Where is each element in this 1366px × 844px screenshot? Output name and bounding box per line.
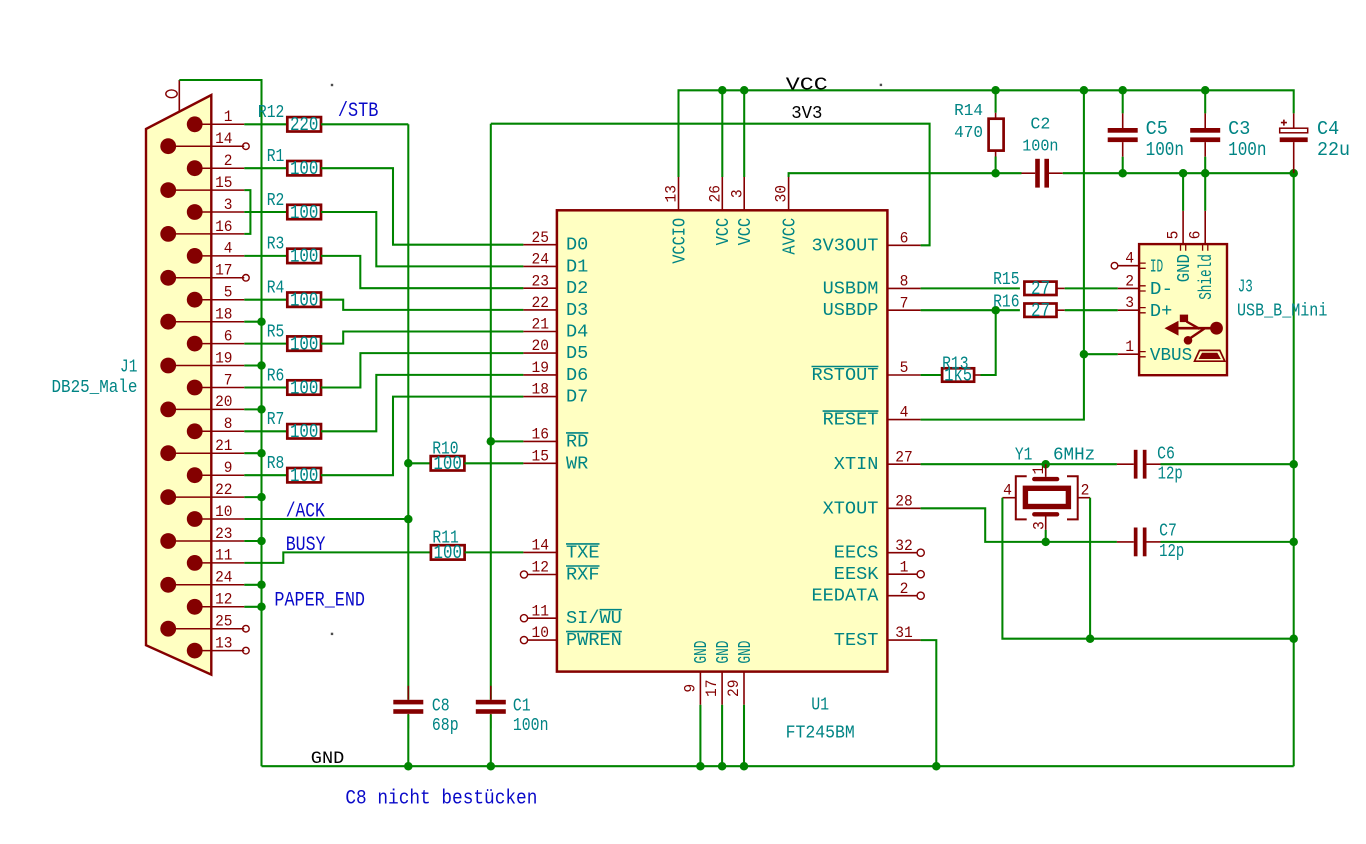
svg-text:100n: 100n — [1022, 137, 1058, 156]
svg-text:1: 1 — [900, 558, 909, 576]
svg-text:2: 2 — [1081, 482, 1090, 500]
svg-text:4: 4 — [1003, 482, 1012, 500]
svg-text:10: 10 — [215, 503, 232, 521]
svg-text:1: 1 — [1125, 338, 1134, 356]
svg-text:R13: R13 — [942, 355, 968, 375]
svg-text:2: 2 — [224, 152, 233, 170]
svg-text:30: 30 — [773, 185, 791, 203]
svg-text:RD: RD — [566, 431, 588, 452]
svg-text:D1: D1 — [566, 256, 588, 277]
svg-text:VCC: VCC — [713, 218, 734, 246]
svg-text:USB_B_Mini: USB_B_Mini — [1237, 302, 1327, 322]
svg-text:21: 21 — [215, 437, 232, 455]
svg-text:22: 22 — [215, 481, 232, 499]
svg-text:D2: D2 — [566, 278, 588, 299]
svg-text:FT245BM: FT245BM — [786, 724, 855, 744]
svg-text:GND: GND — [311, 749, 345, 769]
svg-text:3: 3 — [1125, 294, 1134, 312]
svg-text:11: 11 — [215, 547, 232, 565]
svg-text:R3: R3 — [267, 235, 285, 255]
svg-text:C8: C8 — [432, 696, 450, 716]
svg-text:12: 12 — [531, 559, 549, 577]
svg-text:R4: R4 — [267, 279, 285, 299]
svg-text:R1: R1 — [267, 147, 285, 167]
svg-text:100: 100 — [290, 421, 319, 443]
svg-text:R11: R11 — [432, 528, 458, 548]
svg-text:32: 32 — [895, 537, 913, 555]
svg-text:D5: D5 — [566, 343, 588, 364]
svg-text:22: 22 — [531, 294, 549, 312]
svg-text:VCCIO: VCCIO — [669, 218, 690, 264]
svg-text:TEST: TEST — [834, 630, 879, 651]
svg-text:3V3OUT: 3V3OUT — [812, 235, 879, 256]
svg-text:100: 100 — [290, 465, 319, 487]
svg-text:14: 14 — [215, 130, 232, 148]
svg-text:R14: R14 — [954, 101, 983, 120]
svg-text:U1: U1 — [811, 696, 829, 716]
svg-text:USBDP: USBDP — [823, 300, 879, 321]
svg-text:19: 19 — [215, 349, 232, 367]
svg-text:1: 1 — [224, 108, 233, 126]
svg-text:C5: C5 — [1146, 118, 1168, 140]
svg-text:C7: C7 — [1159, 522, 1177, 542]
svg-text:C3: C3 — [1228, 118, 1250, 140]
svg-text:6: 6 — [900, 229, 909, 247]
svg-text:27: 27 — [895, 448, 913, 466]
svg-text:21: 21 — [531, 316, 549, 334]
svg-text:R5: R5 — [267, 322, 285, 342]
svg-text:C8 nicht bestücken: C8 nicht bestücken — [345, 787, 537, 810]
svg-text:17: 17 — [215, 262, 232, 280]
svg-text:10: 10 — [531, 624, 549, 642]
svg-text:29: 29 — [725, 679, 743, 697]
svg-text:12p: 12p — [1158, 465, 1183, 485]
svg-text:18: 18 — [531, 381, 549, 399]
svg-text:1: 1 — [1030, 466, 1048, 475]
svg-text:68p: 68p — [432, 716, 459, 736]
svg-text:XTOUT: XTOUT — [823, 498, 879, 519]
svg-text:C6: C6 — [1157, 445, 1175, 465]
svg-text:20: 20 — [531, 337, 549, 355]
svg-text:100: 100 — [290, 246, 319, 268]
svg-text:3: 3 — [728, 189, 746, 198]
svg-text:13: 13 — [215, 634, 232, 652]
svg-text:22u: 22u — [1317, 139, 1350, 161]
svg-text:11: 11 — [531, 602, 549, 620]
svg-text:100n: 100n — [1146, 139, 1184, 161]
svg-text:16: 16 — [215, 218, 232, 236]
svg-text:100n: 100n — [1228, 139, 1266, 161]
svg-text:WR: WR — [566, 453, 588, 474]
svg-text:17: 17 — [703, 679, 721, 697]
svg-text:3: 3 — [1030, 521, 1048, 530]
svg-text:C1: C1 — [513, 696, 531, 716]
svg-text:R16: R16 — [993, 293, 1019, 313]
svg-text:9: 9 — [681, 684, 699, 693]
svg-text:J3: J3 — [1238, 278, 1253, 298]
svg-text:16: 16 — [531, 426, 549, 444]
svg-text:470: 470 — [954, 123, 983, 142]
svg-text:R2: R2 — [267, 191, 285, 211]
svg-text:EECS: EECS — [834, 543, 879, 564]
svg-text:28: 28 — [895, 492, 913, 510]
svg-text:27: 27 — [1031, 300, 1050, 322]
svg-text:220: 220 — [290, 114, 319, 136]
svg-text:D6: D6 — [566, 365, 588, 386]
svg-text:EESK: EESK — [834, 564, 879, 585]
svg-text:13: 13 — [663, 185, 681, 203]
svg-text:VBUS: VBUS — [1150, 345, 1192, 366]
svg-text:XTIN: XTIN — [834, 454, 879, 475]
svg-text:J1: J1 — [120, 357, 137, 377]
svg-text:R10: R10 — [432, 439, 458, 459]
svg-text:100: 100 — [290, 202, 319, 224]
svg-text:GND: GND — [691, 641, 712, 664]
svg-text:R12: R12 — [258, 103, 284, 123]
svg-text:/STB: /STB — [338, 100, 379, 123]
svg-text:31: 31 — [895, 624, 913, 642]
svg-text:VCC: VCC — [735, 218, 756, 246]
svg-text:4: 4 — [900, 404, 909, 422]
svg-text:8: 8 — [900, 273, 909, 291]
svg-text:12: 12 — [215, 591, 232, 609]
svg-text:C4: C4 — [1317, 118, 1339, 140]
svg-text:100: 100 — [290, 377, 319, 399]
svg-text:7: 7 — [224, 371, 233, 389]
svg-text:100: 100 — [290, 333, 319, 355]
svg-text:TXE: TXE — [566, 542, 600, 563]
svg-text:GND: GND — [1174, 254, 1195, 282]
svg-text:Y1: Y1 — [1015, 446, 1033, 466]
svg-text:5: 5 — [224, 284, 233, 302]
svg-text:6: 6 — [224, 327, 233, 345]
svg-text:27: 27 — [1031, 278, 1050, 300]
svg-text:RESET: RESET — [823, 410, 879, 431]
svg-text:BUSY: BUSY — [286, 534, 326, 557]
svg-text:RXF: RXF — [566, 565, 600, 586]
svg-text:RSTOUT: RSTOUT — [812, 365, 879, 386]
svg-text:2: 2 — [900, 580, 909, 598]
svg-text:7: 7 — [900, 294, 909, 312]
svg-text:5: 5 — [1165, 231, 1183, 240]
svg-text:R7: R7 — [267, 410, 285, 430]
svg-text:GND: GND — [735, 641, 756, 664]
svg-text:EEDATA: EEDATA — [812, 586, 880, 607]
svg-text:2: 2 — [1125, 272, 1134, 290]
svg-text:DB25_Male: DB25_Male — [52, 378, 138, 398]
svg-text:Shield: Shield — [1196, 254, 1217, 300]
svg-text:PWREN: PWREN — [566, 630, 622, 651]
svg-text:GND: GND — [713, 641, 734, 664]
svg-text:D7: D7 — [566, 387, 588, 408]
svg-text:R6: R6 — [267, 366, 285, 386]
svg-text:3V3: 3V3 — [791, 103, 822, 124]
svg-text:18: 18 — [215, 306, 232, 324]
svg-text:100n: 100n — [513, 716, 549, 736]
svg-text:R8: R8 — [267, 454, 285, 474]
svg-text:3: 3 — [224, 196, 233, 214]
svg-text:14: 14 — [531, 537, 549, 555]
svg-text:SI/WU: SI/WU — [566, 608, 622, 629]
svg-text:4: 4 — [1125, 250, 1134, 268]
svg-text:12p: 12p — [1159, 542, 1184, 562]
svg-text:26: 26 — [706, 185, 724, 203]
svg-text:23: 23 — [531, 272, 549, 290]
svg-text:6MHz: 6MHz — [1053, 446, 1095, 466]
svg-text:8: 8 — [224, 415, 233, 433]
svg-text:ID: ID — [1150, 256, 1163, 277]
svg-text:D4: D4 — [566, 322, 588, 343]
svg-text:AVCC: AVCC — [779, 218, 800, 255]
svg-text:VCC: VCC — [786, 74, 828, 95]
svg-text:D-: D- — [1150, 279, 1173, 300]
svg-text:D3: D3 — [566, 300, 588, 321]
svg-text:24: 24 — [531, 251, 549, 269]
svg-text:100: 100 — [290, 158, 319, 180]
svg-text:R15: R15 — [993, 270, 1019, 290]
svg-text:PAPER_END: PAPER_END — [274, 589, 365, 612]
svg-text:USBDM: USBDM — [823, 278, 879, 299]
svg-text:9: 9 — [224, 459, 233, 477]
svg-text:4: 4 — [224, 240, 233, 258]
svg-text:15: 15 — [531, 447, 549, 465]
svg-text:C2: C2 — [1030, 114, 1050, 133]
svg-text:23: 23 — [215, 525, 232, 543]
svg-text:D0: D0 — [566, 235, 588, 256]
svg-text:19: 19 — [531, 359, 549, 377]
svg-text:100: 100 — [290, 290, 319, 312]
svg-text:D+: D+ — [1150, 301, 1172, 322]
svg-text:24: 24 — [215, 569, 232, 587]
svg-text:15: 15 — [215, 174, 232, 192]
svg-text:20: 20 — [215, 393, 232, 411]
svg-text:/ACK: /ACK — [286, 500, 326, 523]
svg-text:25: 25 — [531, 229, 549, 247]
svg-text:5: 5 — [900, 359, 909, 377]
svg-text:25: 25 — [215, 613, 232, 631]
svg-text:6: 6 — [1187, 231, 1205, 240]
